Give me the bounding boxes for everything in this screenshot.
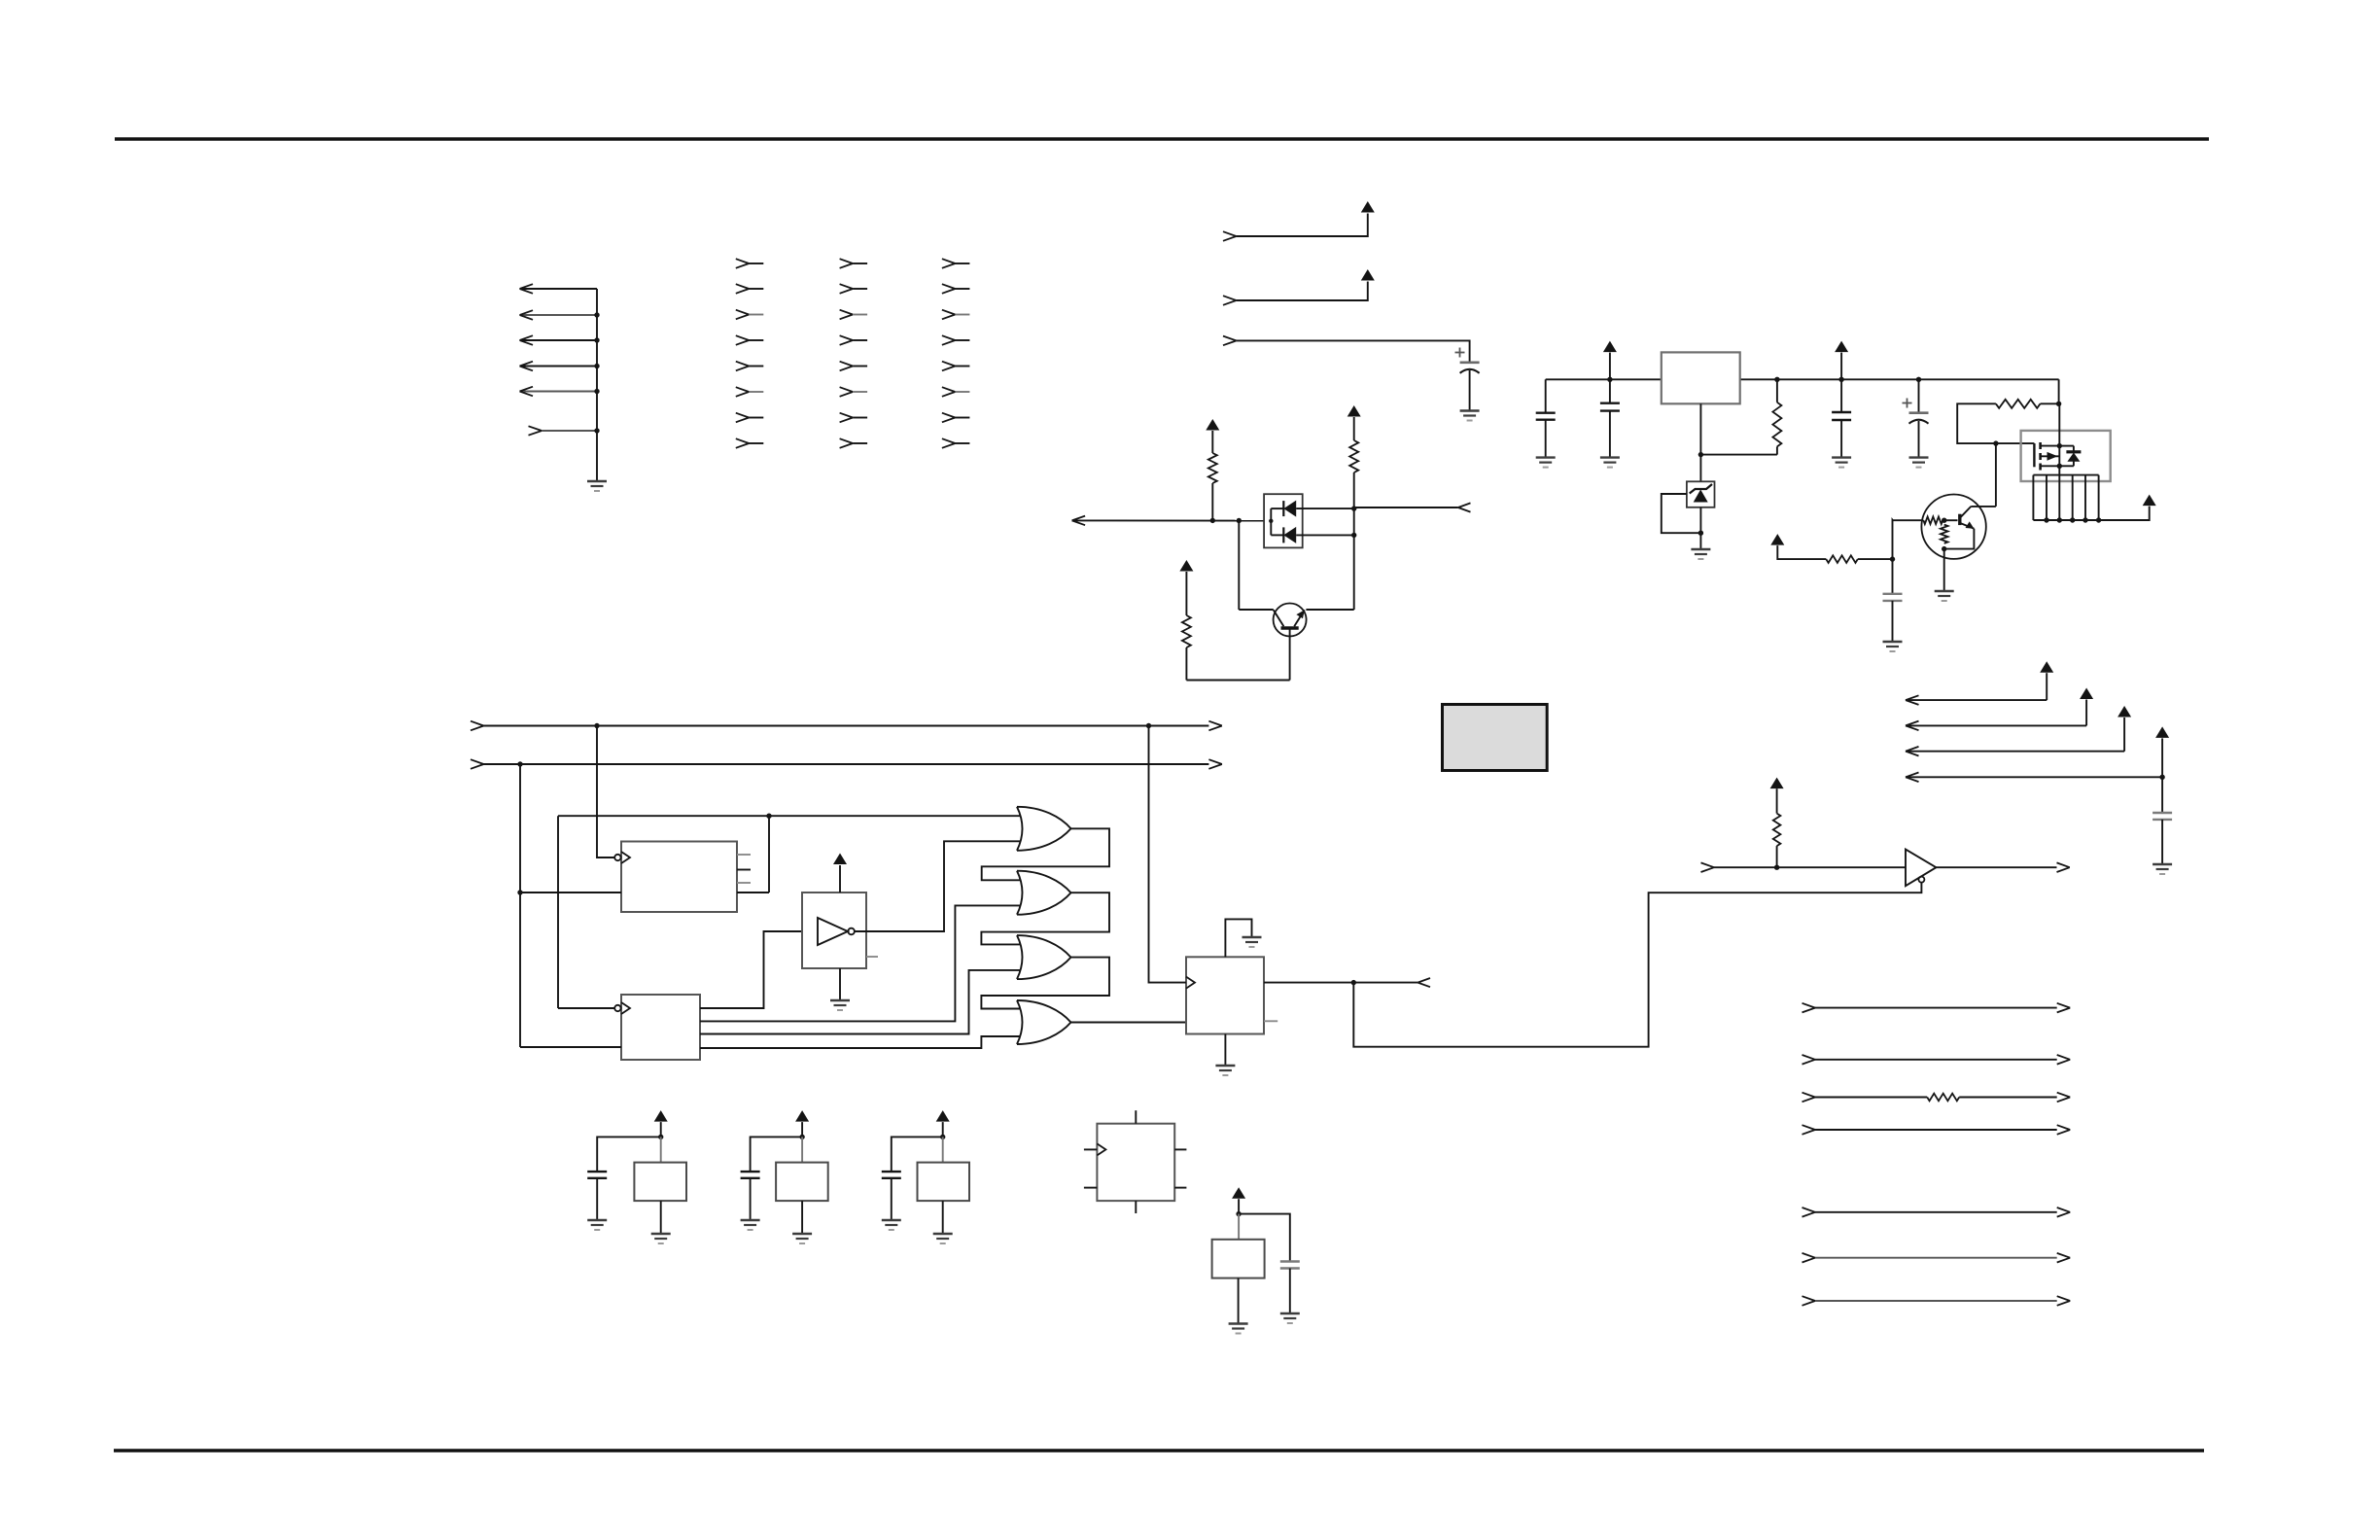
counter U8	[1186, 957, 1264, 1033]
VCC symbol	[1361, 269, 1375, 281]
wire	[1238, 1199, 1240, 1213]
wire bus line 2	[471, 759, 1222, 769]
wire	[1892, 520, 1894, 559]
or-gate U5	[1017, 871, 1071, 915]
connector J1 output wire 1	[520, 284, 598, 294]
wire emitter loop	[1944, 529, 1975, 549]
wire U11 left stub 1	[1084, 1148, 1098, 1150]
wire U4 out chain	[982, 828, 1109, 880]
wire FB1/C8 cap branch	[597, 1137, 661, 1172]
junction	[594, 312, 599, 317]
wire data vertical	[519, 764, 521, 1047]
transistor M1 channel	[2039, 442, 2042, 471]
signal wire row 5	[1802, 1207, 2071, 1217]
wire	[1289, 1269, 1291, 1313]
wire	[1353, 417, 1355, 440]
off-page arrow	[1458, 503, 1471, 511]
wire regulator adj pin	[1699, 403, 1701, 454]
wire U8 output	[1264, 982, 1417, 984]
flip-flop U2	[621, 995, 700, 1060]
connector J2 stub 8	[736, 438, 764, 448]
wire base	[1289, 628, 1291, 681]
junction	[658, 1135, 663, 1139]
connector J2 stub 1	[736, 259, 764, 268]
wire	[1270, 508, 1272, 535]
node stub wire	[1701, 862, 1907, 872]
wire	[1944, 519, 1958, 521]
resistor R10 series	[1927, 1094, 1959, 1102]
junction	[1210, 518, 1215, 523]
connector J4 stub 1	[942, 259, 970, 268]
wire enable route	[1353, 883, 1921, 1047]
junction node G	[1993, 440, 1998, 445]
diode D2 zener box	[1687, 481, 1715, 507]
wire U8 clock feed	[1149, 726, 1187, 983]
buffer U9	[1906, 850, 1936, 887]
VCC symbol	[2040, 661, 2053, 673]
wire	[1776, 446, 1778, 454]
signal wire row 7	[1802, 1296, 2071, 1306]
wire zener left pin loop	[1662, 494, 1701, 533]
VCC symbol	[2117, 706, 2131, 717]
capacitor C6	[1883, 594, 1903, 601]
transistor Q2 body	[1921, 495, 1985, 559]
junction	[799, 1135, 804, 1139]
wire	[1239, 609, 1274, 611]
wire J1 bus vertical	[596, 289, 598, 480]
resistor R9 pull-up	[1773, 814, 1781, 847]
ground	[1242, 937, 1262, 947]
wire	[1353, 472, 1355, 507]
connector J3 stub 2	[840, 284, 868, 294]
wire U2 output 1	[700, 931, 802, 1008]
resistor R2	[1996, 400, 2041, 408]
connector J4 stub 5	[942, 362, 970, 371]
VCC symbol	[1770, 778, 1784, 789]
transistor M1 body arrow	[2041, 452, 2060, 461]
junction	[1890, 556, 1895, 561]
transistor M1 gate bar	[2033, 443, 2035, 467]
wire	[1699, 455, 1701, 482]
ground	[1883, 642, 1903, 651]
node stub to VCC 2 wire	[1223, 282, 1368, 305]
wire	[1185, 572, 1187, 615]
wire	[1186, 680, 1289, 682]
capacitor C5 polarity	[1903, 399, 1912, 408]
wire base feed	[1893, 519, 1924, 521]
capacitor C10	[882, 1172, 901, 1178]
ferrite bead FB3	[918, 1163, 970, 1202]
flip-flop U1	[621, 842, 737, 913]
wire U2 output 2	[700, 905, 1020, 1021]
wire	[1699, 533, 1701, 548]
wire	[1918, 421, 1920, 458]
capacitor C11	[1280, 1262, 1300, 1269]
junction node D	[517, 761, 522, 766]
ferrite bead FB1	[634, 1163, 686, 1202]
wire	[942, 1137, 944, 1162]
VCC symbol	[1361, 201, 1375, 213]
transistor M1 source tap	[2041, 465, 2060, 467]
signal wire row 6	[1802, 1253, 2071, 1263]
capacitor C8	[587, 1172, 607, 1178]
connector J2 stub 3	[736, 310, 764, 320]
off-page wire row 3	[1906, 717, 2124, 756]
VCC symbol	[936, 1110, 950, 1122]
off-page wire row 1	[1906, 673, 2047, 705]
wire	[801, 1201, 803, 1233]
connector J1 input stub	[529, 426, 598, 435]
connector J4 stub 8	[942, 438, 970, 448]
wire	[2161, 777, 2163, 813]
junction node CLK2	[1146, 723, 1151, 728]
resistor R5	[1826, 555, 1858, 563]
wire	[596, 1178, 598, 1220]
wire	[1840, 420, 1842, 458]
wire U5 out chain	[981, 892, 1109, 944]
junction	[1774, 865, 1779, 870]
wire FB3/C10 cap branch	[892, 1137, 943, 1172]
wire FB3/C10 feed	[942, 1122, 944, 1137]
VCC symbol	[1232, 1187, 1245, 1199]
regulator U10	[1662, 352, 1740, 403]
transistor Q2 collector	[1961, 507, 1972, 517]
wire	[1469, 370, 1471, 411]
capacitor C1	[1460, 363, 1480, 373]
off-page arrow	[1417, 978, 1430, 987]
connector J3 stub 3	[840, 310, 868, 320]
wire	[1545, 379, 1547, 412]
junction	[2057, 443, 2062, 448]
wire	[1238, 1214, 1240, 1240]
VCC symbol	[833, 854, 847, 865]
junction	[1698, 452, 1703, 457]
VCC symbol	[1179, 560, 1193, 572]
junction	[1269, 519, 1273, 523]
wire U9 output	[1936, 862, 2069, 872]
inverter U3	[802, 892, 866, 968]
flip-flop U2 clock symbol	[614, 1002, 630, 1014]
ground	[1215, 1066, 1235, 1075]
junction	[594, 364, 599, 368]
junction	[1351, 533, 1356, 538]
signal wire row 4	[1802, 1125, 2071, 1135]
wire	[1185, 647, 1187, 681]
wire to off-page	[1354, 507, 1458, 508]
transistor M1 source pins comb	[2033, 475, 2098, 520]
block note	[1443, 705, 1548, 771]
ground	[792, 1234, 812, 1243]
wire U1 D input	[520, 892, 621, 893]
wire U3 output	[855, 841, 1020, 931]
diode D1b	[1271, 527, 1353, 543]
resistor R1	[1772, 402, 1781, 447]
capacitor C5	[1909, 413, 1929, 424]
ferrite bead FB2	[776, 1163, 828, 1202]
connector J3 stub 5	[840, 362, 868, 371]
wire	[942, 1201, 944, 1233]
wire	[1238, 521, 1240, 611]
wire U3 VCC	[839, 865, 841, 892]
transistor Q2 base bar	[1958, 514, 1961, 525]
flip-flop U1 stub 1	[737, 854, 751, 856]
junction	[2070, 517, 2075, 522]
ground	[1600, 458, 1620, 468]
wire	[1211, 431, 1213, 453]
signal wire row 1	[1802, 1003, 2071, 1013]
transistor M1 package	[2021, 431, 2111, 481]
wire U8 bottom pin	[1224, 1034, 1226, 1066]
VCC symbol	[654, 1110, 668, 1122]
wire	[1943, 549, 1945, 590]
junction	[2159, 775, 2164, 780]
resistor R7	[1349, 440, 1358, 472]
capacitor C7	[2152, 813, 2172, 820]
wire	[1776, 379, 1778, 402]
wire	[2058, 379, 2060, 403]
VCC symbol	[1603, 341, 1617, 353]
ground	[651, 1234, 671, 1243]
junction	[2057, 517, 2062, 522]
ground	[587, 1220, 607, 1230]
junction	[1942, 546, 1946, 551]
wire	[1306, 609, 1353, 611]
inverter U3 triangle	[818, 918, 855, 945]
VCC symbol	[2155, 726, 2169, 738]
wire bus line 1	[471, 721, 1222, 731]
VCC symbol	[795, 1110, 809, 1122]
wire	[1858, 558, 1893, 560]
junction	[2057, 464, 2062, 469]
capacitor C2	[1536, 413, 1556, 420]
wire	[1892, 601, 1894, 642]
junction	[1237, 518, 1242, 523]
transistor Q1 emitter	[1294, 610, 1305, 626]
ground	[2152, 864, 2172, 874]
ground	[1536, 458, 1556, 468]
VCC symbol	[1770, 534, 1784, 545]
VCC symbol	[1347, 405, 1361, 417]
wire FB2/C9 cap branch	[751, 1137, 803, 1172]
junction	[1236, 1211, 1241, 1216]
off-page arrow	[1072, 516, 1086, 526]
ground	[741, 1220, 760, 1230]
node stub to VCC 1 wire	[1223, 214, 1368, 241]
connector J3 stub 1	[840, 259, 868, 268]
junction	[2082, 517, 2087, 522]
wire	[2058, 446, 2060, 475]
connector J3 stub 4	[840, 335, 868, 345]
resistor R6	[1208, 453, 1217, 483]
wire	[1545, 420, 1547, 458]
wire	[750, 1178, 752, 1220]
flip-flop U1 stub 2	[737, 869, 751, 871]
junction	[766, 814, 771, 819]
wire U11 top pin	[1135, 1110, 1137, 1124]
bottom border rule	[114, 1449, 2204, 1452]
wire	[660, 1201, 662, 1233]
or-gate U6	[1017, 935, 1071, 979]
ground	[830, 1000, 850, 1010]
ground	[1935, 591, 1954, 601]
or-gate U7	[1017, 1000, 1071, 1044]
wire	[1840, 353, 1842, 380]
transistor Q1 body	[1274, 604, 1307, 637]
junction	[2096, 517, 2101, 522]
junction	[1698, 531, 1703, 536]
wire power rail right	[1740, 378, 2059, 380]
VCC symbol	[2080, 688, 2093, 700]
wire	[1353, 535, 1355, 610]
transistor Q2 emitter	[1961, 521, 1975, 528]
capacitor C3	[1600, 403, 1620, 411]
node stub 3 wire	[1223, 336, 1470, 363]
wire U11 bottom pin	[1135, 1201, 1137, 1213]
junction	[2056, 402, 2061, 406]
transistor Q1 collector	[1274, 610, 1284, 626]
supervisor U12	[1212, 1240, 1265, 1278]
connector J2 stub 2	[736, 284, 764, 294]
transistor M1 drain tap	[2041, 445, 2060, 447]
junction	[2044, 517, 2048, 522]
oscillator U11	[1097, 1124, 1174, 1201]
inverter U3 right stub	[866, 956, 878, 958]
wire	[1918, 379, 1920, 412]
wire	[801, 1137, 803, 1162]
wire U11 left stub 2	[1084, 1187, 1098, 1189]
wire U8 top pin	[1225, 919, 1251, 957]
wire	[1699, 507, 1701, 533]
wire	[891, 1178, 892, 1220]
wire	[1609, 379, 1611, 402]
diode D2 zener	[1690, 484, 1712, 503]
connector J3 stub 8	[840, 438, 868, 448]
wire	[2041, 402, 2059, 404]
junction	[594, 389, 599, 394]
junction	[1351, 506, 1356, 510]
connector J4 stub 4	[942, 335, 970, 345]
wire C11 branch	[1239, 1214, 1290, 1262]
ground	[1832, 458, 1851, 468]
wire FB1/C8 feed	[660, 1122, 662, 1137]
wire	[2099, 507, 2150, 520]
junction node CLK1	[594, 723, 599, 728]
signal wire row 2	[1802, 1055, 2071, 1065]
flip-flop U1 stub 3	[737, 882, 751, 884]
capacitor C4	[1832, 412, 1851, 420]
wire	[1700, 454, 1777, 456]
ground	[882, 1220, 901, 1230]
junction	[517, 890, 522, 894]
off-page wire row 4	[1906, 738, 2162, 782]
diode D1a	[1271, 501, 1353, 517]
wire	[2161, 820, 2163, 863]
connector J2 stub 4	[736, 335, 764, 345]
capacitor C9	[741, 1172, 760, 1178]
wire U2 output 4	[700, 1036, 1020, 1048]
wire collector riser	[1971, 443, 1996, 507]
wire FF2 clock	[558, 816, 614, 1008]
wire	[1776, 788, 1778, 867]
ground	[587, 481, 607, 491]
wire U6 out chain	[981, 958, 1109, 1009]
ground	[1280, 1313, 1300, 1323]
wire	[1996, 442, 2035, 444]
wire	[1353, 508, 1355, 535]
wire U7 output	[1071, 1022, 1187, 1024]
wire	[1609, 353, 1611, 380]
flip-flop U1 clock symbol	[614, 852, 630, 863]
resistor R4 base-emitter	[1941, 525, 1948, 543]
connector J3 stub 7	[840, 413, 868, 423]
connector J1 output wire 2	[520, 310, 598, 320]
connector J1 output wire 3	[520, 335, 598, 345]
wire	[1892, 559, 1894, 594]
connector J2 stub 7	[736, 413, 764, 423]
wire	[1840, 379, 1842, 412]
resistor R8	[1182, 615, 1191, 647]
diode D3 body diode	[2059, 446, 2081, 467]
connector J1 output wire 4	[520, 362, 598, 371]
wire U2 D input	[520, 1046, 621, 1048]
top border rule	[115, 137, 2209, 140]
wire FB2/C9 feed	[801, 1122, 803, 1137]
connector J4 stub 7	[942, 413, 970, 423]
capacitor C1 polarity	[1455, 348, 1465, 358]
connector J2 stub 6	[736, 387, 764, 397]
wire	[1238, 1278, 1240, 1323]
wire	[1609, 411, 1611, 458]
ground	[1691, 549, 1710, 559]
wire	[1211, 483, 1213, 520]
VCC symbol	[1206, 419, 1219, 431]
connector J4 stub 2	[942, 284, 970, 294]
wire gate feed	[1957, 403, 1996, 443]
wire U3 ground	[839, 968, 841, 999]
counter U8 right stub	[1264, 1020, 1277, 1022]
wire drain	[2058, 403, 2060, 445]
junction	[1916, 377, 1921, 382]
wire node base	[1072, 519, 1265, 521]
wire	[1777, 545, 1826, 559]
transistor Q1 base bar	[1281, 626, 1299, 629]
wire U1 output	[737, 816, 769, 892]
junction	[1942, 518, 1946, 523]
junction	[940, 1135, 945, 1139]
connector J4 stub 3	[942, 310, 970, 320]
VCC symbol	[2143, 495, 2156, 506]
or-gate U4	[1017, 807, 1071, 851]
junction node EN	[1351, 980, 1356, 985]
oscillator U11 clock symbol	[1097, 1143, 1105, 1155]
diode D1 package	[1264, 494, 1303, 547]
connector J4 stub 6	[942, 387, 970, 397]
ground	[1460, 411, 1480, 421]
junction	[1774, 377, 1779, 382]
VCC symbol	[1835, 341, 1848, 353]
connector J1 output wire 5	[520, 387, 598, 397]
signal wire row 3	[1802, 1093, 2071, 1102]
wire gate1 input line	[558, 815, 1020, 817]
wire U2 output 3	[700, 970, 1020, 1034]
wire FF1 clock	[597, 726, 614, 858]
ground	[1909, 458, 1929, 468]
wire power rail	[1546, 378, 1662, 380]
ground	[1229, 1324, 1248, 1334]
wire U11 right stub 2	[1174, 1187, 1186, 1189]
junction	[1838, 377, 1843, 382]
junction	[594, 337, 599, 342]
